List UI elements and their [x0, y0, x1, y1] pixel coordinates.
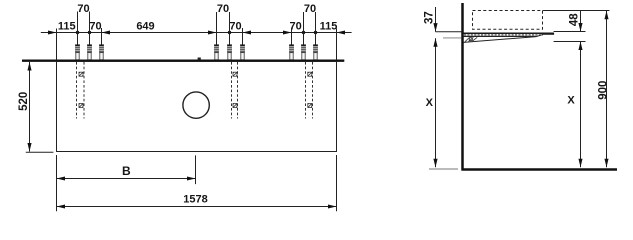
floor extension tick left of wall — [429, 168, 458, 170]
svg-text:X: X — [426, 97, 434, 109]
dashed fixing strip 1 right line — [83, 62, 85, 119]
fixing hole glyph 3b — [307, 103, 312, 108]
arrow right-pointing at left edge x=56.4 — [48, 31, 57, 35]
bracket screw circle — [469, 38, 472, 41]
dashed fixing strip 2 left line — [231, 62, 233, 119]
svg-text:70: 70 — [89, 21, 101, 33]
screw 5 extension — [229, 12, 231, 45]
arrow up 900 — [604, 11, 608, 19]
screw body 5 — [227, 44, 232, 59]
bracket hatch stroke 2 — [469, 37, 474, 41]
arrow down X left — [433, 159, 437, 168]
screw body 9 — [313, 44, 318, 59]
dimension B line — [57, 178, 196, 180]
arrow left-pointing at x=242 — [243, 31, 252, 35]
arrow down 520 — [27, 143, 31, 152]
dim 900 vertical line — [606, 11, 608, 168]
svg-text:37: 37 — [423, 11, 435, 24]
bracket hatch stroke 3 — [472, 37, 477, 41]
screw 2 extension — [89, 12, 91, 46]
screw body 8 — [301, 44, 306, 59]
dim 48 vertical tail with down arrow — [580, 11, 582, 32]
screw 8 extension — [303, 12, 305, 45]
arrow right B — [187, 176, 196, 180]
svg-text:900: 900 — [597, 81, 609, 100]
svg-text:70: 70 — [77, 3, 89, 15]
fixing hole glyph 2b — [233, 103, 238, 108]
chain dot at x=89.5 — [88, 31, 91, 34]
top chain dimension line — [41, 32, 352, 34]
dimension 1578 line — [57, 206, 337, 208]
screw body 3 — [99, 44, 104, 59]
slab inner dashed line — [464, 34, 543, 36]
mirror dashed box — [473, 11, 543, 30]
washbasin slab bottom line — [463, 35, 536, 37]
fixing hole glyph 2a — [233, 72, 238, 77]
cabinet bottom extension to left — [26, 151, 54, 153]
arrow left-pointing at right edge x=336.4 — [337, 31, 346, 35]
slab end cap — [553, 33, 555, 35]
chain dot at x=229 — [228, 31, 231, 34]
screw body 7 — [289, 44, 294, 59]
arrow left-pointing at x=102 (649 left end) — [102, 31, 111, 35]
dim 48 tick upper (slab top level) — [554, 31, 586, 33]
fixing hole glyph 3a — [307, 72, 312, 77]
svg-text:48: 48 — [568, 13, 580, 26]
arrow left 1578 — [57, 204, 66, 208]
dimension 520 vertical line — [29, 62, 31, 152]
screw 6 extension — [242, 28, 244, 45]
wall top thick line (countertop) — [22, 60, 344, 62]
screw 1 extension — [77, 12, 79, 46]
dim X left vertical line — [435, 38, 437, 167]
chain dot at x=303 — [302, 31, 305, 34]
slab taper diagonal — [537, 34, 544, 36]
dim 48 tick lower (underside level) — [554, 41, 586, 43]
arrow down X right — [578, 159, 582, 168]
underside bracket diagonal — [463, 37, 536, 43]
screw 9 extension — [315, 12, 317, 45]
dashed fixing strip 3 left line — [305, 62, 307, 119]
arrow up X right — [578, 42, 582, 51]
svg-text:X: X — [567, 95, 575, 107]
dashed fixing strip 1 left line — [76, 62, 78, 119]
screw body 1 — [75, 44, 80, 59]
arrow right 1578 — [328, 204, 337, 208]
svg-text:70: 70 — [304, 3, 316, 15]
cabinet body rectangle — [57, 62, 337, 152]
drain hole circle — [183, 92, 209, 118]
svg-text:520: 520 — [18, 92, 30, 111]
extension line from mirror top to 900 dim — [543, 10, 610, 12]
screw 4 extension — [216, 12, 218, 45]
svg-text:70: 70 — [229, 21, 241, 33]
screw body 6 — [240, 44, 245, 59]
dashed fixing strip 2 right line — [237, 62, 239, 119]
dim X right vertical line — [580, 42, 582, 168]
screw body 4 — [214, 44, 219, 59]
svg-text:70: 70 — [217, 3, 229, 15]
svg-text:649: 649 — [136, 21, 154, 33]
extension line left edge above — [56, 29, 58, 60]
dim 37 tick bottom — [443, 37, 462, 39]
washbasin slab top line — [463, 32, 553, 34]
arrow right-pointing at x=216.7 (649 right end) — [208, 31, 217, 35]
arrow up X left — [433, 38, 437, 47]
extension line right edge above — [336, 29, 338, 60]
bracket hatch stroke 1 — [465, 37, 470, 42]
center nub above countertop — [198, 58, 201, 60]
fixing hole glyph 1b — [79, 103, 84, 108]
fixing hole glyph 1a — [79, 72, 84, 77]
floor thick line — [462, 168, 618, 171]
dim 37 tick top — [436, 31, 462, 33]
arrow down 900 — [604, 159, 608, 168]
chain dot at x=77 — [76, 31, 79, 34]
arrow right-pointing at x=291 — [283, 31, 292, 35]
extension line right below cabinet — [336, 155, 338, 211]
svg-text:115: 115 — [320, 21, 338, 33]
dashed fixing strip 3 right line — [312, 62, 314, 119]
screws group 1 — [78, 12, 316, 46]
screw 3 extension — [101, 28, 103, 45]
screw body 2 — [87, 44, 92, 59]
svg-text:B: B — [122, 164, 131, 178]
chain dot at x=315.2 — [314, 31, 317, 34]
arrow left B — [57, 176, 66, 180]
slab thin tip bottom — [544, 33, 554, 35]
dim 37 upper tail with down arrow — [435, 7, 437, 32]
extension line drain center below cabinet — [195, 155, 197, 184]
wall vertical thick line — [461, 3, 464, 171]
arrow up 520 — [27, 62, 31, 71]
svg-text:115: 115 — [58, 21, 76, 33]
svg-text:1578: 1578 — [183, 193, 207, 205]
screw 7 extension — [291, 28, 293, 45]
extension line left below cabinet — [56, 155, 58, 211]
